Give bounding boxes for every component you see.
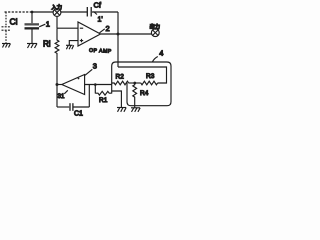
op-amp U2 triangle <box>78 22 101 46</box>
svg-text:31: 31 <box>58 93 65 100</box>
svg-text:Cf: Cf <box>94 1 102 10</box>
label 3 with leader <box>85 62 97 76</box>
terminal (input) circle-cross <box>53 9 61 17</box>
ground (below R1) <box>117 108 126 112</box>
amp3 inversion mark <box>78 78 80 80</box>
svg-text:C1: C1 <box>74 110 83 117</box>
ground (below crystal) <box>27 44 37 49</box>
resistor R1 <box>95 91 111 95</box>
svg-text:入力: 入力 <box>51 3 62 11</box>
wire: op-amp output to terminal <box>101 33 152 35</box>
node: amp3 input junction dot <box>94 83 97 86</box>
svg-text:2: 2 <box>106 24 110 33</box>
ground (below R4) <box>131 108 140 112</box>
wire: C1 loop left vertical <box>56 85 58 108</box>
svg-text:OP AMP: OP AMP <box>89 48 112 55</box>
wire: C1 loop bottom left <box>57 106 69 108</box>
wire: C1 loop right vertical <box>88 85 90 108</box>
box 4 (feedback network outline) <box>112 62 171 106</box>
label 1' with leader <box>94 12 103 24</box>
op-amp plus sign <box>80 39 83 42</box>
label 2 with leader <box>100 24 110 33</box>
svg-text:Ci: Ci <box>10 16 18 26</box>
node: crystal junction dot <box>31 11 34 14</box>
label 31 with leader <box>58 90 68 100</box>
resistor R3 <box>141 81 158 85</box>
resistor Ri <box>55 28 59 84</box>
resistor R2 <box>112 81 129 85</box>
wire: top rail solid from crystal node to Cf <box>32 11 88 13</box>
wire: terminal down to inverting node tee <box>56 16 58 28</box>
wire: box left edge lower segment <box>111 85 113 94</box>
capacitor C1 <box>70 103 73 111</box>
capacitor Ci (stray, dashed) <box>2 12 11 43</box>
label 4 with leader <box>153 49 164 62</box>
wire: R1 branch down from amp3 input node <box>94 85 96 94</box>
node: amp3 output junction dot <box>56 83 59 86</box>
svg-text:R4: R4 <box>140 90 149 97</box>
node: output junction dot <box>117 33 120 36</box>
op-amp minus sign <box>80 27 83 29</box>
svg-text:出力: 出力 <box>150 22 160 30</box>
wire: R1 ground stub <box>112 91 122 108</box>
svg-text:R1: R1 <box>99 97 108 104</box>
wire: amp3 output to left rail <box>57 84 62 86</box>
wire: Cf right to feedback corner <box>92 11 118 13</box>
wire: C1 loop bottom right and up <box>73 106 89 108</box>
wire: crystal bottom lead <box>31 30 33 44</box>
resistor R4 <box>133 83 137 108</box>
capacitor Cf <box>87 7 91 17</box>
svg-text:3: 3 <box>93 62 97 71</box>
ground (below Ci) <box>2 44 11 48</box>
wire: top rail dashed stray-capacitance section <box>5 11 33 13</box>
svg-text:1': 1' <box>98 17 103 24</box>
node: R2-R3 junction dot <box>133 82 136 85</box>
wire: divider feed horizontal and down to R3 <box>118 67 167 83</box>
svg-text:R3: R3 <box>146 73 155 80</box>
crystal (vibrator) 1 : two electrode bars <box>25 23 40 29</box>
svg-text:R2: R2 <box>116 74 125 81</box>
amplifier U3 triangle (points left) <box>62 75 85 95</box>
wire: amp3 input to box <box>85 84 112 86</box>
terminal (output) circle-cross <box>151 29 159 37</box>
wire: feedback vertical down through output to divider <box>117 12 119 67</box>
svg-text:1: 1 <box>46 19 50 28</box>
svg-text:Ri: Ri <box>43 40 51 49</box>
label 1 with leader <box>39 19 50 28</box>
svg-text:4: 4 <box>159 49 163 58</box>
wire: non-inverting input stub <box>69 41 78 45</box>
wire: R2-R3 junction <box>129 82 141 84</box>
wire: crystal top lead <box>31 12 33 23</box>
ground (op-amp + input) <box>66 45 74 49</box>
wire: tee to op-amp inverting input <box>57 27 78 29</box>
